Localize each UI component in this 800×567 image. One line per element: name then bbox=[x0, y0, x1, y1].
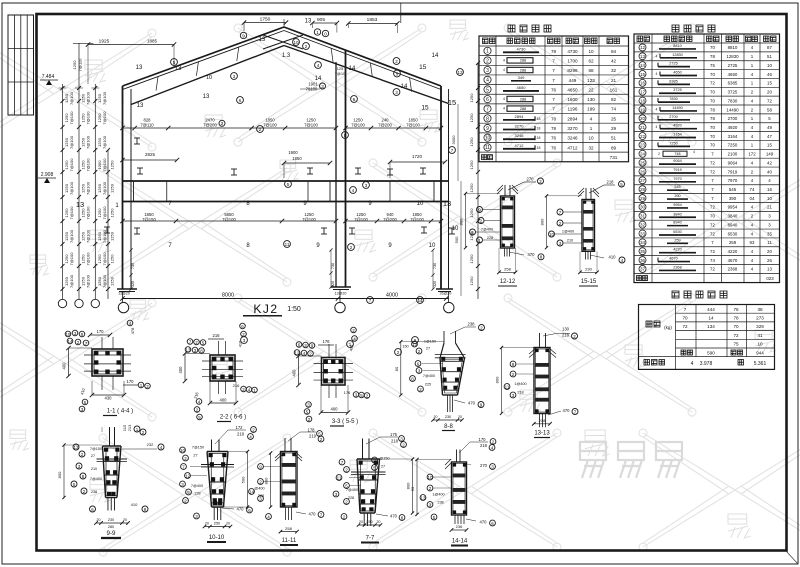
svg-text:49: 49 bbox=[767, 125, 772, 130]
svg-text:213: 213 bbox=[127, 424, 132, 431]
svg-text:72: 72 bbox=[767, 98, 772, 103]
svg-text:58: 58 bbox=[767, 107, 772, 112]
svg-text:7: 7 bbox=[552, 58, 555, 63]
svg-text:449: 449 bbox=[569, 78, 577, 83]
rafter purlin ticks bbox=[156, 77, 158, 91]
table2 row 37 bbox=[639, 265, 646, 272]
svg-text:3840: 3840 bbox=[673, 212, 681, 216]
svg-text:13: 13 bbox=[420, 495, 426, 500]
svg-text:20: 20 bbox=[640, 116, 646, 121]
svg-text:228: 228 bbox=[258, 494, 264, 498]
section 14-14 bottom dim bbox=[452, 529, 467, 531]
svg-text:545: 545 bbox=[674, 185, 680, 189]
svg-text:70: 70 bbox=[710, 214, 715, 219]
svg-text:20: 20 bbox=[123, 518, 127, 522]
svg-text:16: 16 bbox=[767, 187, 772, 192]
svg-text:4920: 4920 bbox=[673, 124, 681, 128]
table1 row 11 bbox=[484, 144, 491, 151]
svg-text:72: 72 bbox=[682, 324, 688, 329]
svg-text:29: 29 bbox=[611, 126, 617, 131]
svg-text:258: 258 bbox=[504, 267, 511, 272]
svg-text:1250: 1250 bbox=[110, 183, 115, 193]
svg-text:500: 500 bbox=[241, 476, 246, 483]
svg-text:7@100: 7@100 bbox=[86, 111, 91, 125]
svg-text:7: 7 bbox=[552, 78, 555, 83]
svg-text:4220: 4220 bbox=[728, 249, 738, 254]
svg-text:4712: 4712 bbox=[515, 143, 525, 148]
section 1-1 (4-4) detail bbox=[92, 349, 123, 376]
svg-text:72: 72 bbox=[710, 267, 715, 272]
svg-text:228: 228 bbox=[194, 492, 200, 496]
svg-text:199: 199 bbox=[587, 107, 595, 112]
svg-text:51: 51 bbox=[767, 54, 772, 59]
svg-text:470: 470 bbox=[390, 514, 398, 519]
svg-text:1@400: 1@400 bbox=[432, 493, 444, 497]
svg-text:18: 18 bbox=[537, 146, 541, 150]
summary table title bbox=[672, 291, 679, 298]
apex ridge tick bbox=[283, 19, 285, 27]
svg-text:93: 93 bbox=[750, 240, 755, 245]
svg-text:7@200: 7@200 bbox=[383, 217, 397, 222]
svg-text:72: 72 bbox=[710, 205, 715, 210]
title strip table top-left bbox=[8, 15, 34, 115]
svg-text:14490: 14490 bbox=[672, 106, 683, 110]
table2 row 30 bbox=[639, 203, 646, 210]
svg-text:3246: 3246 bbox=[567, 136, 578, 141]
table2 row 34 bbox=[639, 239, 646, 246]
svg-text:170: 170 bbox=[479, 437, 487, 442]
svg-text:1750: 1750 bbox=[260, 17, 271, 23]
table2 headers bbox=[637, 36, 643, 42]
svg-text:78: 78 bbox=[710, 107, 715, 112]
roof left dimension 1925 bbox=[88, 44, 174, 46]
svg-text:13: 13 bbox=[305, 19, 312, 25]
svg-text:23: 23 bbox=[640, 143, 646, 148]
svg-text:2: 2 bbox=[486, 58, 489, 64]
section 12-12 top callout 270 bbox=[508, 182, 524, 190]
svg-text:470: 470 bbox=[528, 252, 536, 257]
svg-text:1250: 1250 bbox=[469, 276, 474, 286]
svg-text:20: 20 bbox=[458, 415, 462, 419]
svg-text:6530: 6530 bbox=[673, 230, 681, 234]
svg-text:10: 10 bbox=[180, 448, 186, 453]
svg-text:130: 130 bbox=[587, 97, 595, 102]
svg-text:78: 78 bbox=[710, 116, 715, 121]
svg-text:12: 12 bbox=[294, 350, 300, 355]
svg-text:78: 78 bbox=[551, 126, 557, 131]
svg-text:62: 62 bbox=[588, 58, 594, 63]
left column bbox=[122, 86, 124, 289]
svg-text:123: 123 bbox=[587, 78, 595, 83]
svg-text:17: 17 bbox=[640, 90, 646, 95]
svg-text:2894: 2894 bbox=[515, 114, 525, 119]
svg-text:1196: 1196 bbox=[568, 107, 578, 112]
svg-text:4650: 4650 bbox=[728, 72, 738, 77]
svg-text:210: 210 bbox=[91, 467, 97, 471]
svg-text:1250: 1250 bbox=[110, 208, 115, 218]
svg-text:7830: 7830 bbox=[728, 98, 738, 103]
table1 row 2 bbox=[484, 57, 491, 64]
svg-text:944: 944 bbox=[756, 351, 764, 356]
svg-text:7@100: 7@100 bbox=[263, 123, 277, 128]
svg-text:410: 410 bbox=[131, 502, 138, 507]
table1 row 4 bbox=[484, 76, 491, 83]
svg-text:13: 13 bbox=[767, 267, 772, 272]
svg-text:7@100: 7@100 bbox=[410, 217, 424, 222]
svg-text:37: 37 bbox=[640, 267, 646, 272]
section 7-7 top dims bbox=[366, 437, 380, 444]
column rebar table title bbox=[508, 25, 515, 32]
svg-text:225: 225 bbox=[425, 383, 431, 387]
svg-text:4920: 4920 bbox=[728, 125, 738, 130]
section 15-15 dowels bbox=[585, 251, 587, 259]
svg-text:218: 218 bbox=[391, 439, 399, 444]
svg-text:72: 72 bbox=[710, 222, 715, 227]
svg-text:238: 238 bbox=[437, 501, 443, 505]
svg-text:7@100: 7@100 bbox=[102, 158, 107, 172]
svg-text:7@400: 7@400 bbox=[191, 484, 203, 488]
svg-text:4220: 4220 bbox=[673, 248, 681, 252]
svg-text:18: 18 bbox=[537, 136, 541, 140]
svg-text:78: 78 bbox=[733, 316, 739, 321]
svg-text:2.908: 2.908 bbox=[41, 172, 54, 178]
svg-text:219: 219 bbox=[480, 443, 488, 448]
svg-text:10: 10 bbox=[767, 196, 772, 201]
svg-text:9954: 9954 bbox=[673, 203, 681, 207]
svg-text:7@100: 7@100 bbox=[102, 135, 107, 149]
section 8-8 top callout bbox=[450, 327, 465, 334]
svg-text:41: 41 bbox=[757, 333, 763, 338]
table1 row 5 bbox=[484, 86, 491, 93]
svg-text:228: 228 bbox=[487, 236, 493, 240]
svg-text:8000: 8000 bbox=[222, 293, 234, 299]
svg-text:1@400: 1@400 bbox=[562, 230, 574, 234]
right inner vertical dims bbox=[457, 104, 459, 181]
svg-text:7@100: 7@100 bbox=[302, 217, 316, 222]
svg-text:023: 023 bbox=[766, 276, 774, 281]
svg-text:15: 15 bbox=[421, 105, 429, 112]
svg-text:7@100: 7@100 bbox=[69, 135, 74, 149]
svg-text:14: 14 bbox=[401, 84, 408, 90]
svg-text:10: 10 bbox=[417, 201, 424, 207]
svg-text:7250: 7250 bbox=[669, 141, 677, 145]
svg-text:4730: 4730 bbox=[567, 49, 578, 54]
svg-text:390: 390 bbox=[729, 196, 737, 201]
svg-text:7@100: 7@100 bbox=[86, 91, 91, 105]
svg-text:230: 230 bbox=[585, 267, 592, 272]
svg-text:410: 410 bbox=[609, 255, 617, 260]
svg-text:416: 416 bbox=[238, 340, 243, 347]
svg-text:730: 730 bbox=[433, 263, 437, 269]
svg-text:9064: 9064 bbox=[673, 159, 681, 163]
svg-text:8: 8 bbox=[486, 116, 489, 122]
section 11-11 dowels bbox=[285, 507, 287, 520]
svg-text:176: 176 bbox=[344, 390, 351, 395]
section 10-10 right dim bbox=[247, 452, 249, 508]
svg-text:70: 70 bbox=[710, 125, 715, 130]
svg-text:72: 72 bbox=[733, 333, 739, 338]
svg-text:20: 20 bbox=[205, 522, 209, 526]
svg-text:13: 13 bbox=[185, 347, 191, 352]
section 13-13 left dim bbox=[501, 348, 503, 414]
svg-text:3000: 3000 bbox=[451, 135, 456, 145]
svg-text:12: 12 bbox=[457, 70, 463, 75]
svg-text:6385: 6385 bbox=[728, 81, 738, 86]
svg-text:7@100: 7@100 bbox=[69, 229, 74, 243]
svg-text:1250: 1250 bbox=[469, 93, 474, 103]
svg-text:11: 11 bbox=[337, 475, 342, 480]
svg-text:70: 70 bbox=[733, 324, 739, 329]
svg-text:7.484: 7.484 bbox=[42, 74, 55, 80]
svg-text:11-11: 11-11 bbox=[282, 538, 297, 544]
svg-text:7@100: 7@100 bbox=[406, 123, 420, 128]
svg-text:1: 1 bbox=[590, 126, 593, 131]
section 3-3 dims bbox=[318, 344, 334, 346]
svg-text:4000: 4000 bbox=[386, 293, 398, 299]
svg-text:7@10: 7@10 bbox=[335, 71, 346, 76]
section 7-7 bottom callout 470 bbox=[376, 514, 388, 516]
svg-text:7@100: 7@100 bbox=[102, 111, 107, 125]
svg-text:72: 72 bbox=[710, 169, 715, 174]
svg-text:236: 236 bbox=[456, 524, 463, 529]
svg-text:15: 15 bbox=[448, 98, 456, 107]
svg-text:7@150: 7@150 bbox=[192, 446, 204, 450]
svg-text:14490: 14490 bbox=[726, 107, 739, 112]
svg-text:7919: 7919 bbox=[728, 169, 738, 174]
svg-text:175: 175 bbox=[390, 432, 398, 437]
svg-text:11: 11 bbox=[485, 145, 490, 151]
svg-text:21: 21 bbox=[767, 205, 772, 210]
svg-text:94: 94 bbox=[611, 49, 617, 54]
svg-text:7-7: 7-7 bbox=[366, 536, 375, 542]
svg-text:29: 29 bbox=[640, 196, 646, 201]
svg-text:11: 11 bbox=[505, 384, 510, 389]
svg-text:218: 218 bbox=[237, 432, 245, 437]
svg-text:14: 14 bbox=[315, 76, 322, 82]
section 2-2 callouts bbox=[187, 339, 193, 345]
svg-text:280: 280 bbox=[108, 525, 114, 529]
svg-text:68: 68 bbox=[588, 68, 594, 73]
section 8-8 ledge bbox=[435, 354, 466, 356]
svg-text:4: 4 bbox=[503, 58, 505, 62]
svg-text:7@100: 7@100 bbox=[69, 206, 74, 220]
svg-text:6385: 6385 bbox=[669, 79, 677, 83]
svg-text:7@400: 7@400 bbox=[90, 477, 102, 481]
svg-text:22: 22 bbox=[640, 134, 646, 139]
svg-text:320: 320 bbox=[131, 281, 135, 287]
svg-text:7@200: 7@200 bbox=[203, 123, 217, 128]
section 11-11 top dims bbox=[288, 432, 300, 441]
svg-text:72: 72 bbox=[710, 160, 715, 165]
beam rebar table bbox=[634, 34, 780, 283]
section 7-7 right dim bbox=[412, 459, 414, 513]
svg-text:178: 178 bbox=[308, 428, 316, 433]
svg-text:10: 10 bbox=[757, 342, 763, 347]
svg-text:20: 20 bbox=[97, 518, 101, 522]
svg-text:400: 400 bbox=[220, 398, 228, 403]
middle column base bbox=[331, 286, 351, 288]
svg-text:2725: 2725 bbox=[669, 62, 677, 66]
table2 row 36 bbox=[639, 257, 646, 264]
svg-text:25: 25 bbox=[640, 160, 646, 165]
svg-text:8810: 8810 bbox=[728, 45, 738, 50]
svg-text:42: 42 bbox=[767, 160, 772, 165]
svg-text:@150: @150 bbox=[379, 457, 389, 461]
table1 row 9 bbox=[484, 124, 491, 131]
svg-text:470: 470 bbox=[480, 520, 488, 525]
table2 row 22 bbox=[639, 133, 646, 140]
svg-text:7@100: 7@100 bbox=[102, 229, 107, 243]
svg-text:270: 270 bbox=[480, 463, 488, 468]
svg-text:15: 15 bbox=[65, 332, 71, 337]
svg-text:74: 74 bbox=[611, 107, 617, 112]
beam top small dims bbox=[123, 159, 178, 161]
table2 row 14 bbox=[639, 62, 646, 69]
svg-text:25: 25 bbox=[611, 116, 617, 121]
svg-text:9: 9 bbox=[486, 126, 489, 132]
svg-text:12830: 12830 bbox=[726, 54, 739, 59]
svg-text:149: 149 bbox=[766, 152, 774, 157]
section 8-8 bottom dims bbox=[433, 419, 462, 421]
table1 row 10 bbox=[484, 134, 491, 141]
svg-text:75: 75 bbox=[710, 63, 715, 68]
section 13-13 bottom callout 470 bbox=[548, 411, 561, 415]
svg-text:2825: 2825 bbox=[145, 152, 156, 157]
svg-text:26@20: 26@20 bbox=[440, 292, 452, 296]
svg-text:2100: 2100 bbox=[728, 152, 738, 157]
svg-text:14: 14 bbox=[417, 298, 423, 303]
section 15-15 bottom dim 230 bbox=[580, 271, 597, 273]
svg-text:04: 04 bbox=[750, 196, 755, 201]
svg-text:75: 75 bbox=[733, 342, 739, 347]
svg-text:1-1 ( 4-4 ): 1-1 ( 4-4 ) bbox=[107, 409, 133, 415]
svg-text:1.3: 1.3 bbox=[282, 53, 291, 59]
svg-text:288: 288 bbox=[520, 59, 526, 63]
section 10-10 bottom dims bbox=[205, 526, 231, 528]
svg-text:4670: 4670 bbox=[669, 257, 677, 261]
svg-text:150: 150 bbox=[402, 345, 408, 349]
section 7-7 detail bbox=[357, 458, 380, 460]
svg-text:2700: 2700 bbox=[728, 116, 738, 121]
svg-text:7@100: 7@100 bbox=[102, 91, 107, 105]
svg-text:2368: 2368 bbox=[673, 265, 681, 269]
svg-text:7@100: 7@100 bbox=[354, 217, 368, 222]
svg-text:20: 20 bbox=[767, 90, 772, 95]
svg-text:7@150: 7@150 bbox=[142, 217, 156, 222]
svg-text:7: 7 bbox=[552, 68, 555, 73]
svg-text:8296: 8296 bbox=[567, 68, 578, 73]
svg-text:2: 2 bbox=[658, 152, 660, 156]
section 14-14 detail bbox=[452, 462, 467, 515]
svg-text:51: 51 bbox=[611, 136, 617, 141]
svg-text:216: 216 bbox=[233, 383, 240, 388]
svg-text:172: 172 bbox=[236, 425, 244, 430]
svg-text:4650: 4650 bbox=[517, 85, 527, 90]
svg-text:70: 70 bbox=[710, 134, 715, 139]
svg-text:230: 230 bbox=[108, 518, 114, 522]
svg-text:38: 38 bbox=[757, 307, 763, 312]
section 1-1 vertical extenders bbox=[101, 337, 103, 349]
svg-text:7830: 7830 bbox=[669, 97, 677, 101]
svg-text:470: 470 bbox=[309, 512, 317, 517]
svg-text:76: 76 bbox=[551, 145, 557, 150]
table2 row 20 bbox=[639, 115, 646, 122]
svg-text:15-15: 15-15 bbox=[581, 279, 597, 285]
svg-text:10: 10 bbox=[767, 63, 772, 68]
section 13-13 left callouts bbox=[510, 361, 516, 367]
svg-text:4670: 4670 bbox=[728, 258, 738, 263]
svg-text:329: 329 bbox=[756, 324, 764, 329]
svg-text:10: 10 bbox=[293, 40, 299, 45]
svg-text:7@200: 7@200 bbox=[378, 123, 392, 128]
svg-text:3: 3 bbox=[486, 68, 489, 74]
svg-text:1853: 1853 bbox=[367, 17, 378, 23]
section 3-3 (5-5) detail bbox=[322, 358, 346, 386]
section 7-7 upper right callouts bbox=[372, 457, 378, 463]
section 11-11 bottom dim bbox=[281, 531, 298, 533]
svg-text:7@110: 7@110 bbox=[140, 123, 154, 128]
svg-text:430: 430 bbox=[105, 396, 113, 401]
roof top dimension 905 bbox=[312, 22, 337, 24]
section 13-13 detail (upper right) bbox=[539, 333, 541, 348]
section 11-11 detail bbox=[281, 452, 298, 508]
svg-text:15: 15 bbox=[767, 143, 772, 148]
svg-text:26: 26 bbox=[640, 169, 646, 174]
section 2-2 (6-6) detail bbox=[210, 355, 235, 381]
table1 row 1 bbox=[484, 47, 491, 54]
svg-text:4: 4 bbox=[693, 150, 695, 154]
svg-text:15: 15 bbox=[419, 64, 427, 71]
svg-text:15: 15 bbox=[640, 72, 646, 77]
section 11-11 left callouts bbox=[258, 464, 264, 470]
svg-text:320: 320 bbox=[331, 281, 335, 287]
table1 total row bbox=[479, 151, 629, 153]
section 12-12 top stub bbox=[504, 185, 506, 196]
summary table bbox=[639, 305, 775, 370]
svg-text:1250: 1250 bbox=[110, 254, 115, 264]
svg-text:4712: 4712 bbox=[567, 145, 578, 150]
svg-text:50: 50 bbox=[410, 486, 415, 491]
section 7-7 bottom dims bbox=[359, 524, 381, 526]
left bottom grid bubbles bbox=[58, 299, 66, 307]
svg-text:76: 76 bbox=[551, 136, 557, 141]
svg-text:730: 730 bbox=[131, 263, 135, 269]
svg-text:1: 1 bbox=[486, 49, 489, 55]
svg-text:@400: @400 bbox=[254, 487, 264, 491]
svg-text:42: 42 bbox=[611, 58, 617, 63]
svg-text:21: 21 bbox=[640, 125, 646, 130]
svg-text:4: 4 bbox=[656, 54, 658, 58]
svg-text:6530: 6530 bbox=[728, 231, 738, 236]
svg-text:238: 238 bbox=[468, 322, 476, 327]
svg-text:70: 70 bbox=[710, 98, 715, 103]
svg-text:400: 400 bbox=[331, 407, 339, 412]
svg-text:232: 232 bbox=[147, 442, 154, 447]
table2 row 15 bbox=[639, 71, 646, 78]
svg-text:35: 35 bbox=[640, 249, 646, 254]
svg-text:1250: 1250 bbox=[110, 231, 115, 241]
svg-text:161: 161 bbox=[610, 87, 618, 92]
roof top dimension 1750 bbox=[244, 22, 286, 24]
svg-text:7: 7 bbox=[552, 97, 555, 102]
svg-text:288: 288 bbox=[520, 107, 526, 111]
svg-text:390: 390 bbox=[674, 194, 680, 198]
svg-text:176: 176 bbox=[323, 339, 331, 344]
svg-text:11: 11 bbox=[285, 242, 290, 247]
section 13-13 bottom dim 238 bbox=[534, 423, 550, 425]
svg-text:7919: 7919 bbox=[673, 168, 681, 172]
roof top dimension 1853 bbox=[348, 22, 397, 24]
